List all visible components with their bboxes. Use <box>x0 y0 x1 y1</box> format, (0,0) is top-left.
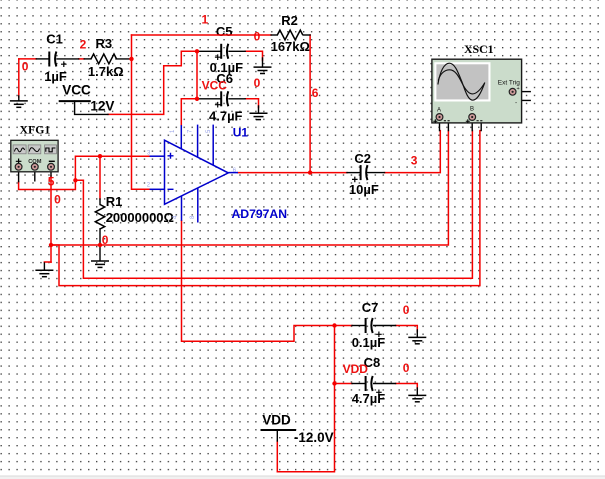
svg-text:0: 0 <box>403 303 410 317</box>
svg-text:C5: C5 <box>216 24 233 39</box>
svg-text:2: 2 <box>80 38 87 52</box>
svg-text:VDD: VDD <box>262 412 291 427</box>
svg-text:4.7µF: 4.7µF <box>352 391 386 406</box>
svg-text:0: 0 <box>22 60 29 74</box>
svg-text:C1: C1 <box>46 32 63 47</box>
svg-text:C2: C2 <box>354 151 371 166</box>
svg-text:VCC: VCC <box>202 78 228 92</box>
svg-text:6: 6 <box>312 86 319 100</box>
svg-text:0: 0 <box>254 29 261 43</box>
svg-text:4.7µF: 4.7µF <box>209 108 243 123</box>
svg-text:VDD: VDD <box>343 362 369 376</box>
svg-text:A: A <box>437 107 441 113</box>
svg-text:0.1µF: 0.1µF <box>352 335 386 350</box>
svg-text:12V: 12V <box>90 99 114 114</box>
svg-text:0: 0 <box>403 361 410 375</box>
svg-text:0: 0 <box>254 76 261 90</box>
svg-text:1: 1 <box>202 12 209 26</box>
svg-text:R3: R3 <box>96 36 113 51</box>
svg-text:-12.0V: -12.0V <box>294 430 334 445</box>
svg-text:R2: R2 <box>281 13 298 28</box>
svg-text:C7: C7 <box>362 300 379 315</box>
svg-text:0: 0 <box>54 192 61 206</box>
svg-text:+: + <box>517 86 520 92</box>
svg-text:20000000Ω: 20000000Ω <box>106 210 174 225</box>
svg-text:U1: U1 <box>233 125 249 139</box>
svg-text:XSC1: XSC1 <box>464 42 494 56</box>
svg-text:167kΩ: 167kΩ <box>271 39 310 54</box>
svg-text:3: 3 <box>411 153 418 167</box>
svg-text:R1: R1 <box>106 194 123 209</box>
svg-text:-: - <box>515 100 517 107</box>
svg-text:1.7kΩ: 1.7kΩ <box>88 64 124 79</box>
svg-text:VCC: VCC <box>62 82 91 97</box>
svg-text:10µF: 10µF <box>349 182 379 197</box>
svg-text:XFG1: XFG1 <box>20 123 51 137</box>
svg-text:B: B <box>470 107 474 113</box>
svg-text:AD797AN: AD797AN <box>232 207 288 221</box>
